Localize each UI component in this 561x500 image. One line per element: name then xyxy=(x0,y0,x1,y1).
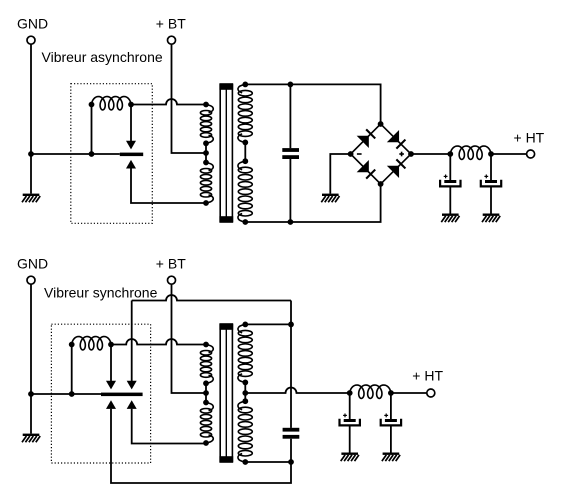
diode D1 (left to top) xyxy=(357,129,376,148)
transformer T1 secondary top winding xyxy=(238,82,252,146)
ground at bridge xyxy=(321,194,339,203)
diode D3 (left to bottom) xyxy=(357,160,376,179)
capacitor C1 buffer xyxy=(282,84,299,222)
ground (top left) xyxy=(22,194,40,203)
diode D2 (top to right) xyxy=(387,130,406,149)
transformer T2 core xyxy=(219,324,233,462)
wire GND down to junction (bottom) xyxy=(30,284,32,394)
node secondary top tie (bottom) xyxy=(288,322,294,328)
wire +BT to primary center tap (bottom) xyxy=(172,284,207,393)
node primary center tap (top) xyxy=(203,150,209,156)
node primary center tap (bottom) xyxy=(203,390,209,396)
transformer T1 core xyxy=(219,84,233,222)
node smoothing cap top (top) xyxy=(288,82,294,88)
filter choke L4 (bottom) xyxy=(350,385,391,398)
wire rectifier contact to secondary top with hop (bottom) xyxy=(132,295,291,301)
terminal + HT (top) xyxy=(527,150,535,158)
transformer T2 secondary top winding xyxy=(238,322,252,386)
contact lower arrow (top vibrator) xyxy=(126,160,136,169)
diode D4 (bottom to right) xyxy=(387,159,406,178)
wire lower-right contact to primary bottom (bottom) xyxy=(132,409,206,444)
wire right upper contact riser (bottom) xyxy=(131,301,133,382)
transformer T1 secondary winding link xyxy=(244,142,246,161)
wire coil left leg (top) xyxy=(91,105,93,155)
vibrator coil L1 (top) xyxy=(89,97,134,110)
node bridge left xyxy=(348,151,354,157)
terminal + HT (bottom) xyxy=(427,389,435,397)
svg-text:Vibreur asynchrone: Vibreur asynchrone xyxy=(42,49,163,65)
wire +BT to primary center tap (top) xyxy=(172,44,207,153)
svg-text:GND: GND xyxy=(17,16,48,32)
wire secondary top to bridge (top) xyxy=(245,84,380,124)
bridge minus label xyxy=(357,153,362,155)
wire secondary bottom to bridge (top) xyxy=(245,184,380,222)
wire coil right to upper contact (top) xyxy=(130,105,132,142)
transformer T2 primary bottom winding xyxy=(200,400,213,446)
node choke left (top) xyxy=(447,151,453,157)
node smoothing cap bottom (top) xyxy=(288,219,294,225)
terminal + BT (top) xyxy=(168,36,176,44)
wire GND to vibrator reed (bottom) xyxy=(31,393,101,395)
transformer T1 primary bottom winding xyxy=(200,160,213,206)
node choke right (top) xyxy=(488,151,494,157)
svg-text:+ BT: + BT xyxy=(156,16,186,32)
node bridge right xyxy=(408,151,414,157)
wire junction to earth (top) xyxy=(30,154,32,194)
node secondary bottom tie (bottom) xyxy=(288,459,294,465)
reed bar (top vibrator) xyxy=(120,153,143,157)
ground below C3 (top filter output) xyxy=(482,214,500,223)
wire GND to vibrator reed (top) xyxy=(31,153,120,155)
wire lower-left contact to secondary return (bottom) xyxy=(111,409,291,483)
wire bridge plus to choke (top) xyxy=(411,153,450,155)
vibrator asynchrone enclosure (dotted) xyxy=(71,84,153,224)
diode bridge D1-D4 xyxy=(351,124,411,184)
capacitor C6 (bottom filter output) xyxy=(381,393,401,453)
transformer T1 secondary bottom winding xyxy=(238,158,252,225)
transformer T2 secondary winding link xyxy=(244,382,246,401)
node reed branch (top) xyxy=(89,151,95,157)
wire junction to earth (bottom) xyxy=(30,394,32,434)
ground below C2 (top filter input) xyxy=(441,214,459,223)
wire secondary center tap to choke with hop (bottom) xyxy=(245,388,349,394)
contact upper-left arrow (bottom vibrator) xyxy=(106,381,116,390)
contact lower-left arrow (bottom vibrator) xyxy=(106,400,116,409)
ground below C6 (bottom filter output) xyxy=(382,453,400,462)
node secondary center tap (bottom) xyxy=(242,390,248,396)
wire riser to secondary top node (bottom) xyxy=(290,301,292,325)
wire coil to primary top with hop over +BT (top) xyxy=(131,99,206,105)
wire choke to +HT (top) xyxy=(491,153,527,155)
svg-text:Vibreur synchrone: Vibreur synchrone xyxy=(44,285,158,301)
node bridge top xyxy=(378,121,384,127)
wire secondary top to tie (bottom) xyxy=(245,323,291,325)
node choke left (bottom) xyxy=(347,390,353,396)
wire choke to +HT (bottom) xyxy=(391,392,427,394)
svg-text:GND: GND xyxy=(17,256,48,272)
transformer T2 primary top winding xyxy=(200,342,213,387)
svg-text:+ HT: + HT xyxy=(514,129,545,145)
wire GND down to junction (top) xyxy=(30,44,32,154)
vibrator coil L3 (bottom) xyxy=(69,337,114,350)
transformer T2 primary winding link xyxy=(205,383,207,402)
node GND junction (bottom) xyxy=(28,391,34,397)
reed bar (bottom vibrator) xyxy=(101,393,143,397)
contact upper arrow (top vibrator) xyxy=(126,141,136,150)
capacitor C5 (bottom filter input) xyxy=(340,393,360,453)
filter choke L2 (top) xyxy=(450,146,491,159)
contact upper-right arrow (bottom vibrator) xyxy=(127,381,137,390)
terminal GND (top circuit) xyxy=(27,36,35,44)
transformer T2 secondary bottom winding xyxy=(238,398,252,465)
svg-text:+ HT: + HT xyxy=(412,368,443,384)
ground below C5 (bottom filter input) xyxy=(341,453,359,462)
ground (bottom left) xyxy=(22,434,40,443)
node GND junction (top) xyxy=(28,151,34,157)
bridge plus label xyxy=(399,152,404,157)
capacitor C2 (top filter input) xyxy=(440,154,460,214)
capacitor C3 (top filter output) xyxy=(481,154,501,214)
vibrator synchrone enclosure (dotted) xyxy=(51,324,150,463)
wire secondary bottom to tie (bottom) xyxy=(245,461,291,463)
svg-text:+ BT: + BT xyxy=(156,256,186,272)
wire lower contact to primary bottom (top) xyxy=(131,169,206,204)
terminal GND (bottom circuit) xyxy=(27,276,35,284)
wire coil left leg (bottom) xyxy=(71,345,73,395)
wire coil right to left upper contact (bottom) xyxy=(110,345,112,382)
node reed branch (bottom) xyxy=(69,391,75,397)
terminal + BT (bottom) xyxy=(168,276,176,284)
node bridge bottom xyxy=(378,181,384,187)
wire coil to primary top with hops (bottom) xyxy=(111,339,206,345)
transformer T1 primary winding link xyxy=(205,143,207,162)
transformer T1 primary top winding xyxy=(200,102,213,147)
contact lower-right arrow (bottom vibrator) xyxy=(127,400,137,409)
wire bridge minus to ground (top) xyxy=(330,154,350,194)
node choke right (bottom) xyxy=(388,390,394,396)
capacitor C4 (bottom buffer) xyxy=(283,324,300,462)
